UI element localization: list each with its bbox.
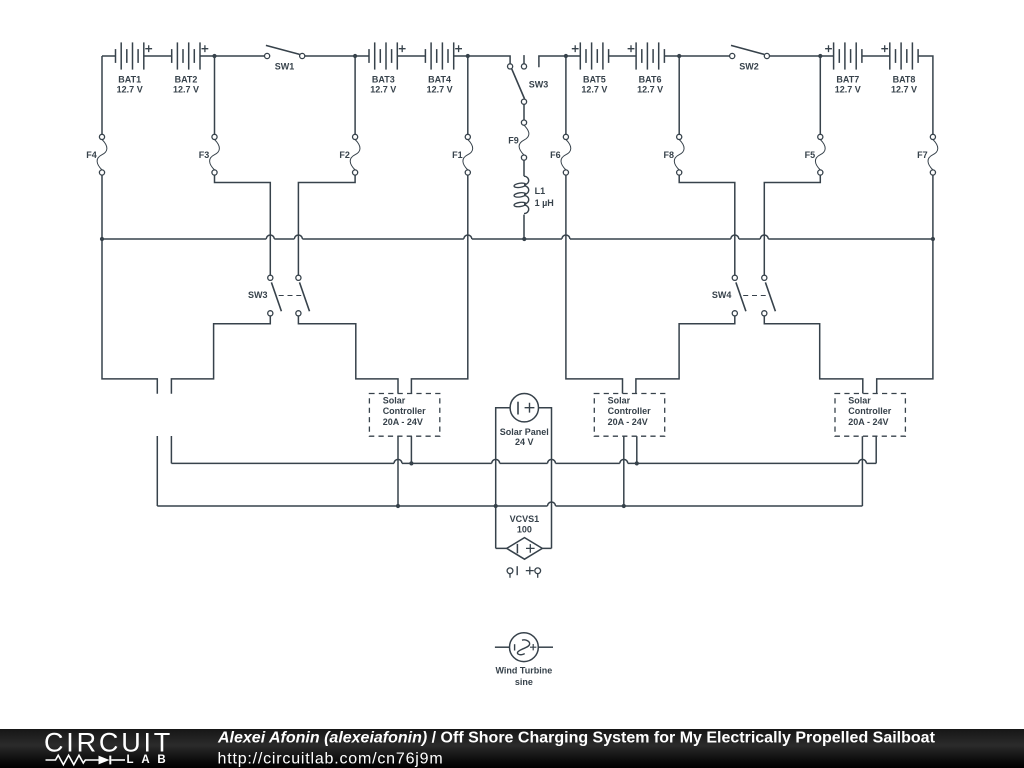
label BAT1 [117, 74, 143, 94]
node BAT6 / F8 junction [677, 54, 681, 58]
svg-text:SW3: SW3 [248, 290, 268, 300]
dependent source VCVS1 [507, 538, 543, 560]
svg-text:F3: F3 [199, 150, 210, 160]
svg-text:12.7 V: 12.7 V [427, 85, 453, 95]
label SW1 [275, 61, 295, 71]
fuse F9 [519, 120, 529, 160]
svg-text:12.7 V: 12.7 V [891, 85, 917, 95]
wire controller1 minus lead [397, 436, 399, 506]
label BAT2 [173, 74, 199, 94]
svg-text:BAT6: BAT6 [639, 74, 662, 84]
battery BAT5 [572, 42, 609, 69]
wire L1 to bus [523, 215, 525, 239]
svg-text:100: 100 [517, 525, 532, 535]
label L1 [535, 186, 554, 208]
wind turbine left stub [495, 646, 510, 648]
svg-text:BAT1: BAT1 [118, 74, 141, 84]
switch SW1 [265, 45, 305, 58]
node right rail / bus junction [931, 237, 935, 241]
node BAT2+ / F3 junction [212, 54, 216, 58]
battery BAT4 [425, 42, 462, 69]
node left rail / bus junction [100, 237, 104, 241]
wire BAT4 to SW3 throw [454, 56, 510, 64]
wire BAT1 to BAT2 [144, 55, 172, 57]
fuse F5 [815, 134, 825, 175]
battery BAT1 [116, 42, 153, 69]
label F8 [663, 150, 674, 160]
svg-text:Wind Turbine: Wind Turbine [496, 666, 553, 676]
battery BAT6 [628, 42, 665, 69]
node controller2+ on rail463 [635, 461, 639, 465]
wire F6 drop [565, 56, 567, 134]
wire SW1 to BAT3 [305, 55, 369, 57]
wire F3 drop [214, 56, 216, 134]
inductor L1 [514, 176, 529, 213]
battery BAT7 [825, 42, 862, 69]
svg-text:F8: F8 [663, 150, 674, 160]
label BAT8 [891, 74, 917, 94]
wire BAT8 to right rail [918, 56, 933, 134]
fuse F4 [97, 134, 107, 175]
svg-text:1 µH: 1 µH [535, 198, 554, 208]
svg-text:24 V: 24 V [515, 437, 534, 447]
svg-text:20A - 24V: 20A - 24V [383, 417, 423, 427]
node controller2- on rail506 [622, 504, 626, 508]
solar controller box 1 [369, 394, 439, 437]
battery BAT8 [881, 42, 918, 69]
label Wind Turbine [496, 666, 553, 688]
label SW2 [739, 61, 759, 71]
node L1 / bus junction [522, 237, 526, 241]
wire BAT5 to BAT6 [609, 55, 637, 57]
wire top-left rail to BAT1 [102, 55, 116, 57]
wire controller3 plus lead [875, 436, 877, 463]
svg-text:BAT8: BAT8 [893, 74, 916, 84]
node controller1- on rail506 [396, 504, 400, 508]
label BAT5 [581, 74, 607, 94]
wire panel left lead [496, 408, 510, 549]
switch SW2 [730, 45, 770, 58]
svg-text:BAT2: BAT2 [175, 74, 198, 84]
svg-text:12.7 V: 12.7 V [173, 85, 199, 95]
fuse F7 [928, 134, 938, 175]
wind turbine right stub [538, 646, 553, 648]
label SW3 [529, 80, 549, 90]
svg-text:F4: F4 [86, 150, 97, 160]
label BAT7 [835, 74, 861, 94]
label VCVS1 [510, 514, 540, 535]
switch SW4 (DPST) [732, 275, 775, 316]
label SW4 [712, 290, 732, 300]
svg-text:12.7 V: 12.7 V [117, 85, 143, 95]
battery BAT3 [369, 42, 406, 69]
svg-text:SW4: SW4 [712, 290, 732, 300]
switch SW3 (DPST) [268, 275, 310, 316]
svg-text:SW1: SW1 [275, 61, 295, 71]
wire F7 to bus and controller3 right [877, 175, 933, 393]
label Solar Panel [500, 427, 549, 447]
svg-text:20A - 24V: 20A - 24V [848, 417, 888, 427]
label F7 [917, 150, 928, 160]
svg-text:F2: F2 [339, 150, 350, 160]
label F6 [550, 150, 561, 160]
node SW2 / F5 junction [818, 54, 822, 58]
wire BAT2 to SW1 [200, 55, 265, 57]
wire F8 drop [678, 56, 680, 134]
logo diode [99, 756, 110, 765]
svg-text:F6: F6 [550, 150, 561, 160]
svg-text:Solar: Solar [608, 395, 631, 405]
svg-text:BAT7: BAT7 [836, 74, 859, 84]
wire F5 drop [819, 56, 821, 134]
svg-text:F9: F9 [508, 136, 519, 146]
label BAT4 [427, 74, 453, 94]
wire controller2 plus lead [636, 436, 638, 463]
label solar controller 1 [383, 395, 426, 426]
svg-text:BAT3: BAT3 [372, 74, 395, 84]
wire controller2 minus lead [623, 436, 625, 506]
svg-text:12.7 V: 12.7 V [581, 85, 607, 95]
wire negative rail [157, 502, 862, 506]
voltage source Solar Panel [510, 394, 538, 422]
svg-text:VCVS1: VCVS1 [510, 514, 540, 524]
wire F5 to SW4 pole2 [764, 175, 820, 275]
battery BAT2 [172, 42, 209, 69]
wire panel right lead [539, 408, 552, 549]
node SW1 / F2 junction [353, 54, 357, 58]
wire main bus [102, 235, 933, 239]
label F3 [199, 150, 210, 160]
footer bar [0, 729, 1024, 768]
wire F1 to controller1 right [411, 175, 467, 393]
svg-text:Controller: Controller [848, 406, 891, 416]
wire gap stub to rail506 [156, 436, 158, 506]
svg-text:20A - 24V: 20A - 24V [608, 417, 648, 427]
svg-text:SW3: SW3 [529, 80, 549, 90]
wire gap stub to rail463 [170, 436, 172, 463]
svg-text:LAB: LAB [127, 754, 174, 766]
fuse F2 [350, 134, 360, 175]
svg-text:SW2: SW2 [739, 61, 759, 71]
wire F6 to controller2 left [566, 175, 623, 393]
node panel- on rail506 [494, 504, 498, 508]
switch SW3 (SPDT) [508, 55, 527, 104]
wire F4 to bus and below [102, 175, 157, 394]
wire F9 to L1 [523, 160, 525, 176]
svg-text:Alexei Afonin (alexeiafonin) /: Alexei Afonin (alexeiafonin) / Off Shore… [217, 729, 936, 746]
wire SW3 pole1 out [171, 316, 270, 394]
fuse F8 [674, 134, 684, 175]
label solar controller 2 [608, 395, 651, 426]
wire F2 to SW3 pole2 [298, 175, 355, 275]
fuse F1 [463, 134, 473, 175]
wire controller3 minus lead [861, 436, 863, 506]
source Wind Turbine [510, 633, 539, 662]
svg-text:BAT5: BAT5 [583, 74, 606, 84]
svg-text:Solar: Solar [848, 395, 871, 405]
svg-text:Solar Panel: Solar Panel [500, 427, 549, 437]
label SW3 (DPST) [248, 290, 268, 300]
svg-text:12.7 V: 12.7 V [835, 85, 861, 95]
svg-text:F5: F5 [805, 150, 816, 160]
solar controller box 3 [835, 394, 905, 437]
label BAT6 [637, 74, 663, 94]
wire F8 to SW4 pole1 [679, 175, 735, 275]
svg-text:Controller: Controller [608, 406, 651, 416]
svg-text:12.7 V: 12.7 V [370, 85, 396, 95]
wire SW4 pole1 out [636, 316, 735, 394]
node BAT5 / F6 junction [564, 54, 568, 58]
label F5 [805, 150, 816, 160]
fuse F6 [561, 134, 571, 175]
label BAT3 [370, 74, 396, 94]
svg-text:BAT4: BAT4 [428, 74, 451, 84]
svg-text:F7: F7 [917, 150, 928, 160]
VCVS1 control terminals [507, 566, 540, 578]
svg-text:sine: sine [515, 677, 533, 687]
wire SW3 pole2 out [298, 316, 398, 394]
wire F1 drop [467, 56, 469, 134]
label F1 [452, 150, 463, 160]
svg-text:F1: F1 [452, 150, 463, 160]
node BAT4+ / F1 junction [466, 54, 470, 58]
wire BAT7 to BAT8 [862, 55, 890, 57]
label solar controller 3 [848, 395, 891, 426]
wire SW4 pole2 out [764, 316, 863, 394]
wire controller1 plus lead [410, 436, 412, 463]
wire BAT6 to SW2 [664, 55, 729, 57]
wire right stub near SW3 [539, 56, 580, 67]
wire BAT3 to BAT4 [397, 55, 425, 57]
svg-text:Solar: Solar [383, 395, 406, 405]
logo resistor zigzag [46, 755, 99, 764]
wire left rail down [101, 56, 103, 134]
wire F3 to SW3 pole1 [215, 175, 271, 275]
fuse F3 [210, 134, 220, 175]
svg-text:Controller: Controller [383, 406, 426, 416]
wire F2 drop [354, 56, 356, 134]
svg-text:http://circuitlab.com/cn76j9m: http://circuitlab.com/cn76j9m [218, 750, 444, 767]
svg-text:12.7 V: 12.7 V [637, 85, 663, 95]
wire SW3 pole to F9 [523, 104, 525, 120]
node controller1+ on rail463 [409, 461, 413, 465]
label F2 [339, 150, 350, 160]
label F9 [508, 136, 519, 146]
svg-text:L1: L1 [535, 186, 546, 196]
label F4 [86, 150, 97, 160]
solar controller box 2 [594, 394, 664, 437]
wire SW2 to BAT7 [770, 55, 834, 57]
wire positive rail [171, 459, 876, 463]
